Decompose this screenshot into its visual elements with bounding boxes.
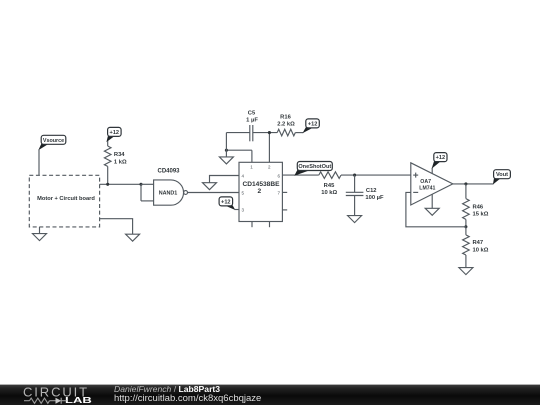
wire motor box lower output xyxy=(100,219,133,235)
power flag +12 above R34 xyxy=(107,127,121,141)
ground at pin 4 xyxy=(203,183,217,190)
pin label 1 xyxy=(250,165,253,170)
wire pin 7 stub xyxy=(282,191,287,193)
wire bottom stub right xyxy=(269,222,271,228)
wire C5 row left xyxy=(226,132,249,134)
resistor R34 xyxy=(104,141,127,184)
svg-text:LM741: LM741 xyxy=(419,186,435,192)
svg-text:10 kΩ: 10 kΩ xyxy=(321,190,337,196)
svg-text:OA7: OA7 xyxy=(420,179,431,185)
svg-text:2.2 kΩ: 2.2 kΩ xyxy=(277,121,295,127)
resistor R45 xyxy=(319,172,341,196)
ground below R47 xyxy=(459,268,473,275)
svg-text:R45: R45 xyxy=(324,183,335,189)
wire main row from motor box to NAND xyxy=(100,183,141,185)
capacitor C5 xyxy=(246,111,258,142)
svg-text:R16: R16 xyxy=(280,115,291,121)
svg-text:C12: C12 xyxy=(366,188,377,194)
node junction output xyxy=(464,182,467,185)
net flag OneShotOut xyxy=(295,162,332,176)
svg-text:Motor + Circuit board: Motor + Circuit board xyxy=(37,196,95,202)
pin label 5 xyxy=(242,190,245,195)
svg-text:+12: +12 xyxy=(308,121,318,127)
net flag Vout xyxy=(493,170,510,184)
resistor R46 xyxy=(463,184,489,227)
svg-text:+12: +12 xyxy=(436,155,446,161)
wire bottom stub left xyxy=(251,222,253,228)
pin label 6 xyxy=(278,173,281,178)
svg-text:LAB: LAB xyxy=(65,396,92,405)
svg-text:1 kΩ: 1 kΩ xyxy=(114,160,127,166)
svg-text:CD4093: CD4093 xyxy=(157,168,180,174)
node junction pin2 top xyxy=(268,131,271,134)
power flag +12 above opamp xyxy=(432,153,447,168)
wire NAND input tie xyxy=(141,184,154,201)
node junction R34 xyxy=(106,183,109,186)
node junction C12 xyxy=(353,174,356,177)
node junction C5 left xyxy=(225,149,228,152)
wire right lower stub xyxy=(282,209,287,211)
footer url xyxy=(114,393,261,404)
svg-text:NAND1: NAND1 xyxy=(159,191,178,197)
pin label 2 xyxy=(268,165,271,170)
pin label 7 xyxy=(278,190,281,195)
power flag +12 at pin 3 xyxy=(219,197,235,210)
svg-text:C5: C5 xyxy=(248,111,256,117)
svg-text:CD14538BE: CD14538BE xyxy=(242,181,280,188)
ground at C5 left xyxy=(219,157,233,164)
node junction NAND inputs xyxy=(139,183,142,186)
svg-text:Vout: Vout xyxy=(496,172,508,178)
wire pin 2 xyxy=(268,133,270,163)
node junction feedback xyxy=(464,225,467,228)
nand gate NAND1 xyxy=(154,180,188,205)
wire opamp output xyxy=(453,183,494,185)
logo CIRCUIT LAB xyxy=(23,384,92,405)
resistor R47 xyxy=(463,227,489,268)
logo resistor-diode squiggle xyxy=(24,398,67,404)
svg-text:Vsource: Vsource xyxy=(43,138,64,144)
svg-text:100 µF: 100 µF xyxy=(365,195,384,201)
wire pin 4 to ground xyxy=(210,176,240,183)
svg-text:+12: +12 xyxy=(221,199,231,205)
wire pin 6 to R45 xyxy=(282,174,318,176)
net flag Vsource xyxy=(39,135,66,149)
wire pin 1 horizontal xyxy=(226,149,252,151)
wire NAND output to pin 5 xyxy=(188,192,240,194)
svg-text:2: 2 xyxy=(257,188,261,195)
svg-text:http://circuitlab.com/ck8xq6cb: http://circuitlab.com/ck8xq6cbqjaze xyxy=(114,393,261,404)
wire R45 to opamp xyxy=(341,174,411,176)
power flag +12 right of R16 xyxy=(303,119,319,133)
svg-text:R47: R47 xyxy=(473,240,484,246)
footer text author/title xyxy=(114,384,220,394)
wire C5 left branch xyxy=(225,133,227,157)
op-amp OA7 LM741 xyxy=(411,163,453,205)
svg-text:OneShotOut: OneShotOut xyxy=(298,164,331,170)
pin label 4 xyxy=(242,173,245,178)
wire feedback xyxy=(406,192,466,226)
wire opamp V- pin xyxy=(431,194,433,208)
motor block SUB1 Motor + Circuit board xyxy=(29,175,99,227)
footer bar xyxy=(0,385,540,405)
wire C5 to R16 xyxy=(253,132,277,134)
wire pin 1 xyxy=(251,150,253,162)
ic U2 CD14538BE xyxy=(239,162,282,221)
ground below C12 xyxy=(348,216,362,223)
pin label 3 xyxy=(242,207,245,212)
wire pin 3 stub xyxy=(234,209,239,211)
resistor R16 xyxy=(277,115,303,136)
svg-text:R34: R34 xyxy=(114,152,125,158)
ground right of motor box xyxy=(126,234,140,241)
svg-text:+12: +12 xyxy=(110,130,120,136)
wire opamp V+ pin xyxy=(431,168,433,174)
capacitor C12 xyxy=(346,175,384,216)
ground below motor box xyxy=(33,227,47,241)
svg-text:15 kΩ: 15 kΩ xyxy=(473,212,489,218)
svg-text:R46: R46 xyxy=(473,204,484,210)
svg-text:1 µF: 1 µF xyxy=(246,118,258,124)
wire Vsource to motor box xyxy=(38,149,40,175)
ground below opamp xyxy=(425,208,439,215)
label CD4093 xyxy=(157,168,180,174)
svg-text:10 kΩ: 10 kΩ xyxy=(473,247,489,253)
